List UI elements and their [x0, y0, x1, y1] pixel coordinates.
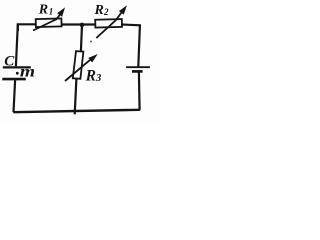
svg-text:m: m: [20, 64, 35, 81]
wire middle branch upper: [81, 25, 82, 52]
speck: [90, 41, 92, 43]
particle dot in capacitor: [16, 72, 19, 75]
wire right rail lower: [138, 72, 141, 110]
capacitor C1 top plate: [3, 66, 31, 68]
R2 arrow: [96, 10, 123, 38]
wire right rail upper: [138, 26, 140, 67]
R3 arrow: [65, 59, 92, 81]
wire middle branch lower: [75, 79, 77, 115]
wire bottom rail: [13, 110, 140, 112]
svg-text:R: R: [85, 67, 96, 84]
wire left rail upper: [16, 24, 18, 66]
R1 arrow: [33, 12, 62, 31]
wire left rail lower: [14, 80, 16, 112]
svg-text:R: R: [94, 3, 104, 18]
svg-text:1: 1: [49, 7, 54, 17]
battery B1 long plate: [126, 66, 150, 68]
capacitor C1 bottom plate: [2, 78, 26, 81]
battery B1 short plate: [132, 70, 143, 73]
svg-text:C: C: [4, 53, 15, 69]
wire top-right segment: [122, 25, 140, 28]
resistor R2 box: [95, 19, 122, 28]
svg-text:3: 3: [95, 73, 101, 84]
svg-text:2: 2: [103, 7, 109, 17]
resistor R3 box: [73, 51, 84, 79]
wire top-left segment: [18, 24, 36, 31]
wire R1 to R2 segment: [61, 23, 95, 25]
svg-text:R: R: [38, 3, 48, 18]
resistor R1 box: [36, 18, 62, 27]
junction node top: [80, 23, 85, 28]
